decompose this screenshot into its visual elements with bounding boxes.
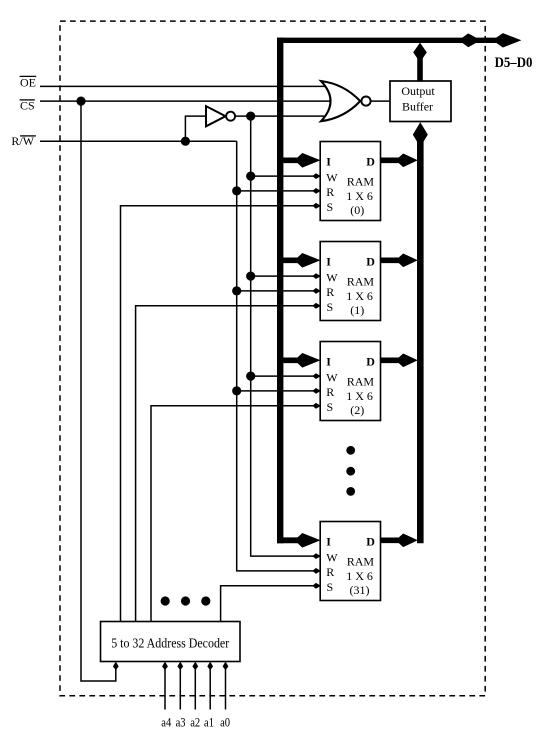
label OE (active low): [20, 75, 37, 89]
bus arrowhead D RAM 0: [396, 154, 418, 168]
bus arrowhead into Output Buffer bottom: [413, 122, 428, 147]
bus stem D RAM 2: [381, 357, 400, 363]
arrowhead W RAM 0: [312, 173, 321, 179]
svg-text:D: D: [366, 254, 375, 268]
svg-text:1 X 6: 1 X 6: [346, 189, 373, 203]
inverter output bubble: [226, 112, 235, 121]
svg-text:R: R: [326, 565, 334, 579]
svg-text:R: R: [326, 385, 334, 399]
svg-text:(2): (2): [350, 403, 364, 417]
svg-text:I: I: [326, 254, 331, 268]
bus stem I RAM 1: [282, 257, 300, 263]
svg-text:D: D: [366, 154, 375, 168]
svg-text:(0): (0): [350, 203, 364, 217]
arrowhead R RAM 1: [312, 288, 321, 294]
NOR output bubble: [361, 97, 370, 106]
arrowhead a1: [207, 662, 213, 671]
svg-text:I: I: [326, 354, 331, 368]
bus arrowhead D RAM 2: [396, 354, 418, 368]
wire S RAM 2 from decoder: [151, 406, 320, 622]
wire R/W horizontal: [40, 140, 237, 142]
arrowhead a3: [177, 662, 183, 671]
arrowhead a2: [192, 662, 198, 671]
junction dot R/W: [181, 137, 190, 146]
wire W branch to RAM 0: [251, 175, 320, 177]
wire S RAM 0 from decoder: [121, 206, 321, 622]
svg-text:S: S: [327, 300, 334, 314]
junction dot CS: [76, 97, 85, 106]
wire R branch to RAM 0: [237, 190, 320, 192]
bus arrowhead end: [492, 33, 521, 47]
5 to 32 Address Decoder box: [101, 622, 241, 662]
bus arrowhead I RAM 31: [295, 533, 321, 548]
chip boundary (dashed box): [60, 21, 485, 696]
bus stem I RAM 2: [282, 357, 300, 363]
svg-text:D5–D0: D5–D0: [495, 55, 533, 71]
svg-text:RAM: RAM: [347, 175, 375, 189]
inverter U2 (R/W to W): [206, 106, 226, 126]
wire W branch to RAM 1: [251, 275, 320, 277]
arrowhead R RAM 0: [312, 188, 321, 194]
arrowhead S RAM 1: [312, 303, 321, 309]
bus arrowhead I RAM 0: [295, 153, 321, 168]
svg-text:RAM: RAM: [347, 375, 375, 389]
svg-text:1 X 6: 1 X 6: [346, 569, 373, 583]
wire R vertical (R/W) down to RAM 31 R input: [237, 141, 320, 571]
bus arrowhead I RAM 1: [295, 253, 321, 268]
junction dot R RAM 2: [232, 386, 241, 395]
wire CS down-left to address decoder enable: [81, 101, 116, 681]
bus stem I RAM 0: [282, 158, 300, 164]
svg-text:S: S: [327, 580, 334, 594]
svg-text:W: W: [326, 171, 338, 185]
input a4 wire: [164, 663, 166, 710]
junction dot R RAM 0: [232, 186, 241, 195]
input a2 wire: [194, 663, 196, 710]
arrowhead W RAM 1: [312, 273, 321, 279]
svg-text:I: I: [326, 154, 331, 168]
wire R branch to RAM 1: [237, 290, 320, 292]
bus arrowhead D RAM 31: [396, 534, 418, 548]
vertical ellipsis dots between RAM 2 and RAM 31: [346, 446, 355, 496]
bus stem Output Buffer top: [417, 56, 423, 82]
svg-text:a1: a1: [204, 715, 214, 730]
horizontal ellipsis dots decoder outputs: [161, 596, 211, 605]
svg-text:1 X 6: 1 X 6: [346, 289, 373, 303]
svg-text:OE: OE: [20, 75, 36, 89]
NOR gate U1: [321, 81, 360, 121]
svg-text:1 X 6: 1 X 6: [346, 389, 373, 403]
Output Buffer box: [390, 81, 451, 122]
junction dot W line: [246, 112, 255, 121]
data bus top horizontal D5-D0: [277, 38, 498, 43]
arrowhead S RAM 31: [312, 583, 321, 589]
svg-text:D: D: [366, 354, 375, 368]
svg-text:a2: a2: [190, 715, 200, 730]
RAM 1X6 (1) block: [320, 242, 380, 321]
svg-text:(31): (31): [350, 583, 370, 597]
svg-text:R: R: [326, 185, 334, 199]
junction dot W RAM 0: [246, 172, 255, 181]
wire W vertical (inverted R/W) down to RAM 31 W input: [251, 116, 320, 556]
svg-text:a4: a4: [161, 715, 171, 730]
wire S RAM 1 from decoder: [136, 306, 320, 622]
svg-text:R: R: [326, 285, 334, 299]
wire inverter output to NOR input 3: [235, 115, 330, 117]
svg-text:RAM: RAM: [347, 555, 375, 569]
wire OE to NOR input 1: [40, 85, 330, 87]
bus stem D RAM 1: [381, 257, 400, 263]
bus stem I RAM 31: [277, 537, 301, 543]
label CS (active low): [20, 99, 35, 113]
svg-text:(1): (1): [350, 303, 364, 317]
wire R branch to RAM 2: [237, 390, 320, 392]
arrowhead S RAM 2: [312, 403, 321, 409]
RAM 1X6 (31) block: [320, 522, 380, 601]
RAM 1X6 (2) block: [320, 342, 380, 421]
wire NOR output to Output Buffer: [371, 100, 390, 102]
bus stem D RAM 0: [381, 158, 400, 164]
arrowhead W RAM 2: [312, 373, 321, 379]
arrowhead W RAM 31: [312, 553, 321, 559]
arrowhead R RAM 31: [312, 568, 321, 574]
junction dot W RAM 2: [246, 372, 255, 381]
arrowhead a4: [162, 662, 168, 671]
svg-text:a3: a3: [176, 715, 186, 730]
input a0 wire: [225, 663, 227, 710]
svg-text:W: W: [326, 271, 338, 285]
svg-text:I: I: [326, 534, 331, 548]
svg-text:D: D: [366, 534, 375, 548]
arrowhead into decoder bottom (CS path): [113, 662, 119, 671]
bus arrowhead D RAM 1: [396, 254, 418, 268]
svg-text:5 to 32 Address Decoder: 5 to 32 Address Decoder: [111, 636, 229, 651]
wire CS to NOR input 2: [40, 100, 330, 102]
junction dot W RAM 1: [246, 272, 255, 281]
bus arrowhead Output Buffer to data bus: [413, 43, 427, 63]
bus arrow mid: [459, 33, 481, 47]
svg-text:W: W: [326, 551, 338, 565]
arrowhead R RAM 2: [312, 388, 321, 394]
output bus right vertical: [417, 134, 424, 543]
wire W branch to RAM 2: [251, 375, 320, 377]
input bus left vertical: [277, 38, 283, 544]
wire S RAM 31 from decoder: [221, 586, 320, 622]
bus stem D RAM 31: [381, 537, 400, 543]
svg-text:Output: Output: [401, 84, 435, 98]
bus arrowhead I RAM 2: [295, 353, 321, 368]
junction dot R RAM 1: [232, 286, 241, 295]
arrowhead S RAM 0: [312, 203, 321, 209]
svg-text:CS: CS: [20, 99, 35, 113]
svg-text:Buffer: Buffer: [402, 100, 433, 114]
arrowhead a0: [223, 662, 229, 671]
svg-text:S: S: [327, 400, 334, 414]
svg-text:S: S: [327, 200, 334, 214]
input a1 wire: [209, 663, 211, 710]
RAM 1X6 (0) block: [320, 142, 380, 221]
svg-text:W: W: [326, 371, 338, 385]
wire R/W riser to inverter input: [185, 116, 206, 141]
label R/W: [11, 134, 36, 148]
svg-text:RAM: RAM: [347, 275, 375, 289]
svg-text:a0: a0: [220, 715, 230, 730]
input a3 wire: [179, 663, 181, 710]
